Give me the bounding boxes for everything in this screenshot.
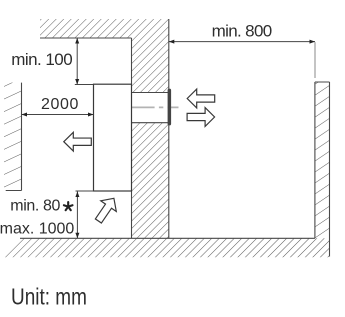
svg-text:min. 800: min. 800 <box>212 22 272 41</box>
svg-text:Unit: mm: Unit: mm <box>11 285 87 310</box>
svg-text:max. 1000: max. 1000 <box>0 221 74 238</box>
svg-text:2000: 2000 <box>41 96 79 113</box>
svg-text:min. 80: min. 80 <box>10 198 60 215</box>
svg-text:min. 100: min. 100 <box>11 50 72 69</box>
